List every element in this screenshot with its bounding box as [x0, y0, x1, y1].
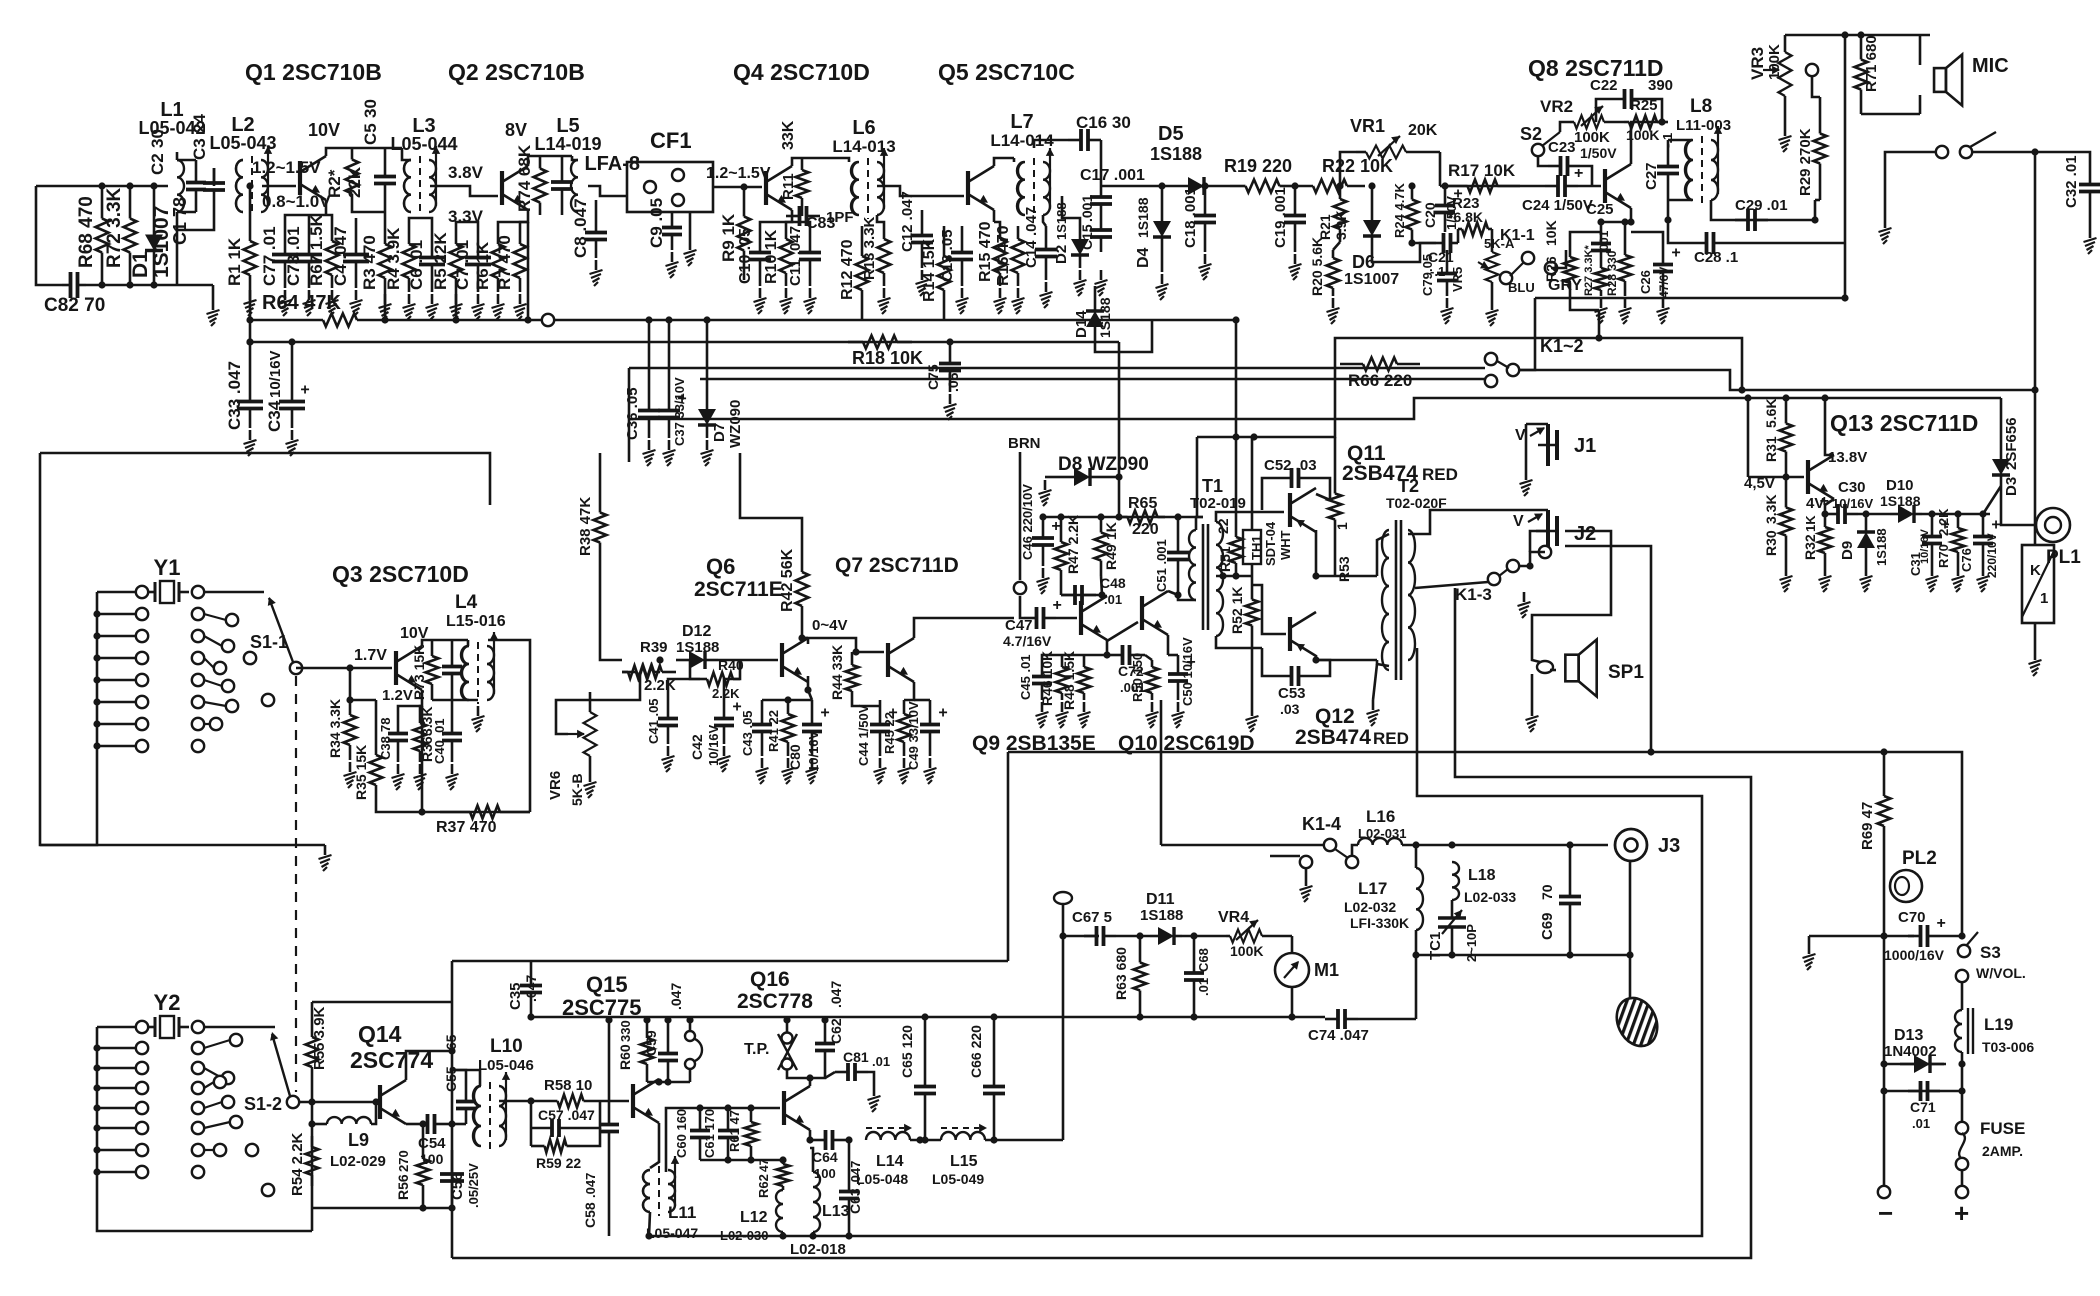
wire j2 pa [1565, 546, 1651, 752]
terminal [136, 1102, 148, 1114]
junction [93, 654, 100, 661]
wire c28 r [1730, 242, 1845, 245]
svg-text:D8 WZ090: D8 WZ090 [1058, 454, 1149, 475]
wire t1 in [1178, 595, 1196, 600]
label minus [1878, 1198, 1893, 1228]
svg-text:C82 70: C82 70 [44, 295, 105, 316]
node [1219, 572, 1226, 579]
capacitor C25 [1586, 201, 1614, 262]
ground [1246, 706, 1259, 732]
resistor R45 [882, 700, 911, 756]
ground [1441, 298, 1454, 324]
svg-text:C80: C80 [787, 744, 803, 770]
ground [666, 252, 679, 278]
svg-text:K: K [2030, 562, 2041, 579]
label Q11 [1347, 442, 1386, 465]
label L3 [412, 115, 435, 137]
svg-text:R74 68K: R74 68K [515, 144, 534, 212]
wire minus col [1883, 936, 1886, 1185]
inductor L15 [932, 1124, 987, 1187]
transistor Q15 [633, 1079, 659, 1123]
node [1441, 182, 1448, 189]
svg-text:WHT: WHT [1278, 530, 1293, 560]
wire vr2 stub [1560, 122, 1570, 132]
terminal [192, 718, 204, 730]
wire wafer link [204, 680, 222, 686]
capacitor C53 [1268, 666, 1322, 717]
label 1.2-1.5V [252, 158, 321, 177]
svg-text:24: 24 [190, 114, 209, 133]
capacitor C19 [1272, 186, 1306, 252]
capacitor C82 [44, 272, 105, 316]
svg-text:2SB474: 2SB474 [1295, 726, 1371, 749]
ground [1146, 702, 1159, 728]
svg-text:C26: C26 [1638, 270, 1653, 294]
transistor Q8 [1605, 164, 1631, 208]
wire bank bottom2 [97, 1190, 312, 1231]
svg-text:C22: C22 [1590, 77, 1618, 94]
svg-text:1S188: 1S188 [1150, 144, 1202, 164]
ground [684, 240, 697, 266]
svg-text:R9 1K: R9 1K [719, 213, 738, 262]
label 0-4V [812, 617, 847, 634]
capacitor C34 [265, 350, 310, 432]
wire CF1 gnd [689, 212, 692, 240]
wire vr3 wiper [1812, 76, 1820, 97]
resistor R24 [1392, 182, 1419, 243]
svg-text:Y1: Y1 [154, 555, 181, 580]
wire det rail [1101, 185, 1162, 188]
wire q16 emit [809, 1130, 812, 1140]
wire c53 r [1316, 660, 1330, 676]
ground [780, 288, 793, 314]
wire c74 up [1415, 955, 1418, 1019]
node [452, 316, 459, 323]
ground [944, 394, 957, 420]
label C9 [647, 198, 666, 248]
ground [1619, 298, 1632, 324]
inductor L18 [1452, 862, 1516, 905]
svg-text:C75: C75 [925, 364, 941, 390]
svg-text:Q4 2SC710D: Q4 2SC710D [733, 59, 870, 85]
svg-text:R48 1.5K: R48 1.5K [1061, 651, 1077, 710]
terminal [136, 586, 148, 598]
capacitor C40 [432, 712, 462, 764]
terminal [192, 1021, 204, 1033]
resistor R4 [403, 230, 416, 292]
wire mic box right [1919, 35, 1922, 65]
diode D8 [1060, 468, 1104, 486]
wire [355, 218, 358, 228]
resistor R7 [514, 230, 527, 292]
wire r29 bot [1815, 199, 1820, 202]
contact [1500, 272, 1512, 284]
label R3 [360, 235, 379, 290]
capacitor C44 [856, 700, 898, 766]
wire q12 base [1252, 585, 1286, 634]
svg-text:C12 .047: C12 .047 [899, 191, 916, 252]
svg-text:R38 47K: R38 47K [577, 497, 594, 556]
svg-text:R4 3.9K: R4 3.9K [384, 227, 403, 290]
node [1857, 31, 1864, 38]
junction [93, 1124, 100, 1131]
wire q15 base [610, 1100, 629, 1103]
inductor L14 [856, 1124, 912, 1187]
wire q9 base [1056, 617, 1077, 620]
wire k14 in [1161, 844, 1324, 847]
ground [916, 270, 929, 296]
svg-text:1K: 1K [1803, 515, 1818, 532]
wire [520, 222, 528, 230]
resistor R39b [622, 666, 676, 679]
node [150, 182, 157, 189]
wire d3 to node [1983, 486, 2001, 514]
wire c28 l [1668, 220, 1690, 243]
svg-text:L9: L9 [348, 1130, 369, 1150]
contact K1-4 a [1324, 839, 1336, 851]
terminal [136, 652, 148, 664]
capacitor C79 [1420, 254, 1457, 296]
svg-text:L02-018: L02-018 [790, 1241, 846, 1258]
node [346, 696, 353, 703]
svg-text:PL2: PL2 [1902, 848, 1937, 869]
wire C3 bottom [177, 205, 214, 230]
svg-text:Q14: Q14 [358, 1021, 402, 1047]
node [1841, 294, 1848, 301]
resistor R41 [766, 700, 795, 756]
ground [403, 294, 416, 320]
node [448, 1120, 455, 1127]
label Q15 [586, 972, 628, 997]
label CF1 [650, 128, 692, 153]
svg-text:WZ090: WZ090 [727, 400, 744, 448]
label R67 [307, 213, 326, 286]
wire r24 c21 [1412, 242, 1436, 245]
svg-text:10/16V: 10/16V [1832, 496, 1874, 511]
wire relay bot [2034, 623, 2037, 650]
resistor R9 [719, 187, 751, 280]
svg-text:R60: R60 [617, 1044, 633, 1070]
label S3b [1976, 965, 2026, 981]
label Q6 part [694, 578, 783, 601]
node [804, 686, 811, 693]
wire L7 to C16 [1034, 140, 1068, 148]
ground [1367, 700, 1380, 726]
resistor R39 [622, 666, 660, 679]
contact K1-2 a [1485, 353, 1497, 365]
inductor L16 [1358, 807, 1406, 845]
resistor R44 [829, 645, 859, 700]
node [1647, 748, 1654, 755]
wire wafer link [204, 1122, 230, 1128]
label K1-4 [1302, 814, 1341, 834]
resistor R18 [848, 336, 923, 369]
inductor L3 winding [404, 160, 411, 212]
node [1136, 1013, 1143, 1020]
ground [1952, 566, 1965, 592]
svg-text:T.P.: T.P. [744, 1041, 770, 1058]
node [1336, 182, 1343, 189]
svg-text:1: 1 [2040, 590, 2048, 607]
svg-text:R12 470: R12 470 [839, 239, 856, 300]
wire q6 coll [802, 637, 808, 640]
capacitor C30 [1820, 479, 1874, 524]
svg-text:Q1 2SC710B: Q1 2SC710B [245, 59, 382, 85]
capacitor C27 [1643, 133, 1679, 200]
resistor R59 [531, 1140, 581, 1172]
svg-text:C30: C30 [1838, 479, 1866, 496]
capacitor C42 [689, 699, 742, 767]
svg-text:+: + [300, 382, 309, 399]
wire r51 up [1235, 437, 1238, 524]
wire lug drop [1062, 904, 1065, 1140]
diode D14 [1073, 297, 1113, 340]
svg-text:4.7/16V: 4.7/16V [1003, 633, 1052, 649]
svg-text:+: + [1053, 597, 1062, 614]
svg-text:R45 22: R45 22 [882, 712, 897, 754]
diode D7 [698, 396, 744, 448]
svg-text:C59: C59 [643, 1030, 659, 1056]
wire c32 gnd [2089, 214, 2092, 228]
svg-text:13.8V: 13.8V [1828, 449, 1867, 466]
wire mic box bottom [1861, 113, 1920, 116]
svg-text:C65 120: C65 120 [899, 1025, 915, 1078]
label plus [1954, 1198, 1969, 1228]
wire j2 chain [1532, 531, 1611, 648]
terminal [262, 694, 274, 706]
svg-text:10V: 10V [308, 120, 340, 140]
svg-text:VR4: VR4 [1218, 909, 1249, 926]
wire Q1 emitter [325, 200, 328, 215]
svg-text:C41 .05: C41 .05 [646, 698, 661, 744]
node [2031, 386, 2038, 393]
wire C33 drop [249, 342, 252, 382]
wire d14b [1095, 320, 1152, 352]
junction [93, 1084, 100, 1091]
ground [782, 758, 795, 784]
wire j3 down [1629, 861, 1632, 1000]
wire q15 emit [650, 1123, 659, 1168]
svg-text:D14: D14 [1073, 310, 1090, 338]
wire c29 r [1814, 200, 1817, 220]
label L6 [852, 117, 875, 139]
wire q13 base up [1747, 398, 1750, 477]
wire bus342 [250, 341, 1119, 344]
wire wafer link [204, 636, 222, 646]
transistor Q4 [766, 166, 792, 210]
node [1566, 841, 1573, 848]
svg-text:0.8~1.0V: 0.8~1.0V [262, 192, 331, 211]
svg-text:R21: R21 [1317, 214, 1333, 240]
node [664, 1078, 671, 1085]
wire sp1 leads [1532, 648, 1540, 662]
svg-text:J3: J3 [1658, 835, 1680, 857]
wire q7e c49 [914, 699, 930, 702]
svg-text:RED: RED [1422, 465, 1458, 484]
capacitor C73 [296, 228, 322, 288]
inductor L8 [1686, 126, 1722, 204]
ground [804, 288, 817, 314]
wire C34 tap [291, 342, 294, 382]
wire y1 row [97, 591, 136, 594]
node [246, 338, 253, 345]
svg-text:C67 5: C67 5 [1072, 909, 1112, 926]
capacitor C10 [737, 226, 771, 286]
node [1880, 932, 1887, 939]
junction [93, 632, 100, 639]
terminal [136, 1122, 148, 1134]
contact S2 [1532, 144, 1544, 156]
wire c32 stub [2035, 152, 2090, 162]
resistor R48 [1061, 651, 1091, 710]
wire c47 in [1020, 596, 1024, 618]
svg-text:D10: D10 [1886, 477, 1914, 494]
node [703, 316, 710, 323]
capacitor C71 [1908, 1081, 1940, 1131]
label Q11 part [1342, 462, 1418, 485]
node [1412, 951, 1419, 958]
svg-text:L05-043: L05-043 [209, 133, 276, 153]
node [126, 182, 133, 189]
label 10V q3 [400, 625, 429, 642]
svg-text:K1-3: K1-3 [1455, 585, 1492, 604]
wire t2 p bot [1377, 660, 1389, 666]
ground [286, 430, 299, 456]
label D8 [1058, 454, 1149, 475]
label T1 part [1190, 495, 1246, 512]
svg-text:C74 .047: C74 .047 [1308, 1027, 1369, 1044]
wire L7 sec bot [1043, 215, 1046, 226]
svg-text:C62: C62 [828, 1018, 844, 1044]
node [524, 316, 531, 323]
node [1526, 562, 1533, 569]
svg-text:C17 .001: C17 .001 [1080, 167, 1145, 184]
svg-text:C68: C68 [1196, 948, 1211, 972]
label BLU [1508, 280, 1535, 295]
node [686, 1016, 693, 1023]
wire q14 emit [406, 1123, 415, 1126]
svg-text:L02-030: L02-030 [720, 1228, 768, 1243]
inductor L1 winding [177, 160, 184, 212]
label SP1 [1608, 662, 1644, 683]
switch lever [1970, 132, 1996, 147]
node [643, 1016, 650, 1023]
wire k14 gnd [1305, 868, 1308, 876]
node [1368, 182, 1375, 189]
svg-text:C51 .001: C51 .001 [1154, 539, 1169, 592]
inductor L12 [720, 1190, 783, 1243]
label VR1 [1350, 116, 1385, 136]
inductor L6 [852, 148, 888, 219]
inductor L11 [643, 1156, 679, 1216]
junction [93, 1146, 100, 1153]
node [1811, 216, 1818, 223]
node [990, 1013, 997, 1020]
terminal [230, 1116, 242, 1128]
svg-text:.047: .047 [583, 1173, 598, 1198]
resistor R69 [1859, 752, 1891, 870]
svg-text:C71: C71 [1910, 1099, 1936, 1115]
switch K1-3 lever [1499, 569, 1508, 576]
wire wafer link [204, 702, 226, 706]
capacitor C63 [839, 1161, 863, 1218]
capacitor C24 [1522, 165, 1593, 214]
node [126, 281, 133, 288]
svg-text:C58: C58 [582, 1202, 598, 1228]
terminal [136, 740, 148, 752]
label K1-3 [1455, 585, 1492, 604]
wire d8 node [1104, 476, 1119, 479]
terminal [210, 718, 222, 730]
wire d14 [1094, 286, 1097, 298]
wire c63 [848, 1218, 851, 1236]
svg-text:Q2 2SC710B: Q2 2SC710B [448, 59, 585, 85]
wire l8 tap [1667, 200, 1670, 220]
label Q11 red [1422, 465, 1458, 484]
transistor Q16 [784, 1086, 810, 1130]
resistor R2 [325, 148, 364, 205]
wire r55 r54 [311, 1102, 314, 1231]
box osc corner [628, 368, 631, 462]
ground [319, 845, 332, 871]
ground [898, 758, 911, 784]
wire d3 drop [2000, 398, 2003, 448]
node [1312, 572, 1319, 579]
label Q1 [245, 59, 382, 85]
svg-text:5.6K: 5.6K [1763, 398, 1779, 428]
node [246, 338, 253, 345]
label Q10 big [1118, 732, 1255, 755]
terminal [192, 1082, 204, 1094]
node [527, 1097, 534, 1104]
resistor R55 [306, 1002, 329, 1102]
node [1627, 218, 1634, 225]
ground [344, 762, 357, 788]
label T2 [1398, 476, 1419, 496]
node [724, 1104, 731, 1111]
node [946, 338, 953, 345]
wire bank row [97, 1171, 136, 1174]
svg-text:T2: T2 [1398, 476, 1419, 496]
svg-text:C23: C23 [1548, 139, 1576, 156]
svg-text:R50 150: R50 150 [1130, 653, 1145, 702]
wire q3 coll [422, 640, 468, 646]
resistor R72 [104, 186, 137, 285]
svg-text:.05/25V: .05/25V [466, 1163, 481, 1208]
node [381, 316, 388, 323]
diode D5 [1150, 123, 1230, 195]
junction [93, 742, 100, 749]
terminal [136, 718, 148, 730]
capacitor C23 [1548, 139, 1617, 176]
label BRN [1008, 435, 1041, 452]
svg-text:C32 .01: C32 .01 [2063, 155, 2080, 208]
filter CF1 [627, 162, 713, 212]
label L2 part [209, 133, 276, 153]
wire c22 loop [1596, 99, 1608, 122]
capacitor C47 [1003, 597, 1062, 649]
resistor R34 [327, 699, 357, 760]
ground [1486, 300, 1499, 326]
svg-text:L4: L4 [455, 592, 478, 613]
wire sw left [1885, 152, 1936, 218]
svg-text:.047: .047 [523, 975, 539, 1002]
capacitor C17 [1080, 167, 1145, 215]
label J1 [1574, 435, 1596, 457]
svg-text:L02-031: L02-031 [1358, 826, 1406, 841]
capacitor C72 [1107, 645, 1145, 695]
wire bank row [97, 1067, 136, 1070]
